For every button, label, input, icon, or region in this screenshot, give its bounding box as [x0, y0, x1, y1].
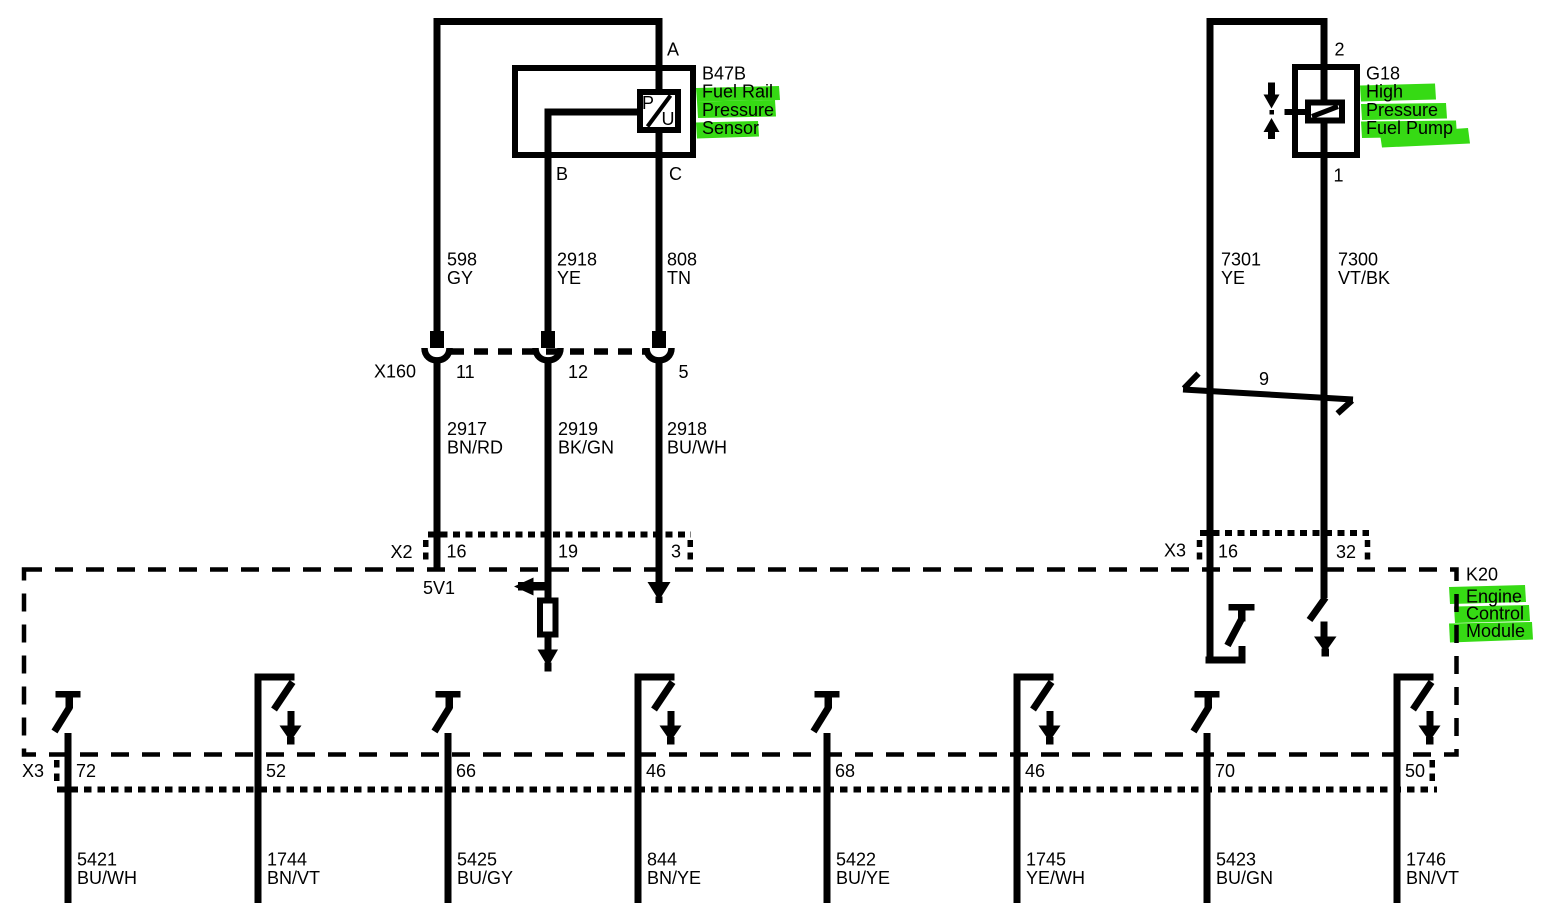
internal switch driver at x=68: [55, 691, 81, 732]
svg-text:TN: TN: [667, 268, 691, 288]
wire label 5421 BU/WH: [77, 850, 137, 889]
internal ground arrow on pin 3 net: [648, 582, 671, 603]
ECM K20 dashed box: [24, 570, 1457, 755]
svg-text:3: 3: [671, 542, 681, 562]
connector X160 female terminal at x=659: [647, 348, 672, 360]
solenoid left stub: [1285, 109, 1306, 115]
svg-text:P: P: [642, 93, 654, 113]
svg-text:X3: X3: [1164, 541, 1186, 561]
component label K20 Engine Control Module: [1449, 565, 1533, 643]
connector X3 right end tick: [1365, 540, 1371, 560]
connector X160 male pin terminal at x=437: [430, 331, 444, 348]
svg-text:B47B: B47B: [702, 64, 746, 84]
internal resistor on pin 19 net: [540, 601, 556, 635]
connector X2 dotted line: [428, 532, 691, 538]
svg-text:16: 16: [447, 542, 467, 562]
internal switch contact T-bar (X3 pin 16 net): [1229, 604, 1255, 622]
internal switch driver at x=1207: [1194, 691, 1220, 732]
twisted pair indicator 9: [1183, 374, 1353, 414]
wire 7301 YE vertical full: [1207, 18, 1214, 663]
output wire circuit 5423: [1204, 733, 1211, 903]
wire label 598 GY: [447, 250, 477, 289]
output wire circuit 844: [635, 674, 642, 903]
internal switch blade (X3 pin 32 net): [1310, 598, 1326, 621]
svg-text:46: 46: [646, 761, 666, 781]
svg-text:2: 2: [1335, 40, 1345, 60]
output wire circuit 5422: [824, 733, 831, 903]
svg-text:YE/WH: YE/WH: [1026, 868, 1085, 888]
svg-text:Pressure: Pressure: [702, 100, 774, 120]
wire label 5422 BU/YE: [836, 850, 890, 889]
connector X2 right end tick: [688, 540, 694, 561]
svg-text:Sensor: Sensor: [702, 118, 759, 138]
svg-text:19: 19: [558, 542, 578, 562]
svg-text:1744: 1744: [267, 850, 307, 870]
svg-text:66: 66: [456, 761, 476, 781]
wire label 1746 BN/VT: [1406, 850, 1459, 889]
svg-text:844: 844: [647, 850, 677, 870]
pressure transducer symbol P/U inside B47B: [640, 92, 678, 130]
pump G18 outer box: [1295, 67, 1357, 155]
connector X3 bottom left end tick: [54, 760, 60, 784]
pump flow arrows: [1264, 83, 1280, 140]
svg-text:2918: 2918: [557, 250, 597, 270]
svg-text:9: 9: [1259, 369, 1269, 389]
svg-text:A: A: [667, 40, 679, 60]
wire 2917 BN/RD vertical: [434, 360, 441, 570]
internal ground arrow below resistor: [538, 650, 559, 672]
wire top horizontal G18 loop: [1207, 18, 1328, 25]
wire left vertical 598 GY: [434, 18, 441, 331]
internal driver with ground arrow at x=1397: [1394, 674, 1441, 745]
internal switch driver at x=827: [814, 691, 840, 732]
svg-text:2917: 2917: [447, 419, 487, 439]
svg-text:5421: 5421: [77, 850, 117, 870]
internal driver with ground arrow at x=1017: [1014, 674, 1061, 745]
svg-text:72: 72: [76, 761, 96, 781]
output wire circuit 1745: [1014, 674, 1021, 903]
svg-text:2918: 2918: [667, 419, 707, 439]
output wire circuit 1744: [255, 674, 262, 903]
wire label 2918 BU/WH: [667, 419, 727, 458]
wire label 7301 YE: [1221, 250, 1261, 289]
wire label 5423 BU/GN: [1216, 850, 1273, 889]
svg-text:2919: 2919: [558, 419, 598, 439]
svg-text:BN/RD: BN/RD: [447, 438, 503, 458]
svg-text:5: 5: [679, 362, 689, 382]
svg-text:BN/YE: BN/YE: [647, 868, 701, 888]
svg-text:GY: GY: [447, 268, 473, 288]
internal ground arrow on pin 32 net: [1314, 622, 1337, 657]
wire label 1745 YE/WH: [1026, 850, 1085, 889]
connector X160 female terminal at x=548: [536, 348, 561, 360]
sensor B47B outer box: [515, 68, 693, 155]
svg-text:BU/GN: BU/GN: [1216, 868, 1273, 888]
connector X160 dashed line: [450, 348, 646, 355]
svg-text:5425: 5425: [457, 850, 497, 870]
svg-text:50: 50: [1405, 761, 1425, 781]
component label G18 High Pressure Fuel Pump: [1360, 64, 1470, 148]
svg-text:32: 32: [1336, 542, 1356, 562]
pump solenoid element: [1308, 103, 1342, 121]
svg-text:52: 52: [266, 761, 286, 781]
svg-text:1745: 1745: [1026, 850, 1066, 870]
component label B47B Fuel Rail Pressure Sensor: [696, 64, 780, 139]
svg-text:808: 808: [667, 250, 697, 270]
svg-text:1: 1: [1334, 166, 1344, 186]
wire pin A vertical: [656, 18, 663, 89]
svg-text:1746: 1746: [1406, 850, 1446, 870]
svg-text:U: U: [662, 109, 675, 129]
svg-text:Module: Module: [1466, 621, 1525, 641]
svg-text:70: 70: [1215, 761, 1235, 781]
internal driver with ground arrow at x=258: [255, 674, 302, 745]
wire label 808 TN: [667, 250, 697, 289]
svg-text:16: 16: [1218, 542, 1238, 562]
connector X3 dotted line (ECM bottom): [57, 787, 1437, 793]
svg-text:K20: K20: [1466, 565, 1498, 585]
svg-text:598: 598: [447, 250, 477, 270]
wire 2918 BU/WH vertical: [656, 360, 663, 582]
svg-text:5V1: 5V1: [423, 578, 455, 598]
internal 5V reference arrow (points left): [514, 578, 552, 596]
svg-text:X160: X160: [374, 362, 416, 382]
svg-text:X3: X3: [22, 761, 44, 781]
internal driver with ground arrow at x=638: [635, 674, 682, 745]
wire pin B horizontal inside box: [545, 109, 641, 116]
svg-text:5423: 5423: [1216, 850, 1256, 870]
wire 2919 BK/GN vertical: [545, 360, 552, 598]
svg-text:BN/VT: BN/VT: [267, 868, 320, 888]
svg-text:5422: 5422: [836, 850, 876, 870]
svg-text:BU/WH: BU/WH: [77, 868, 137, 888]
svg-text:BU/YE: BU/YE: [836, 868, 890, 888]
wire pin B vertical: [545, 109, 552, 332]
svg-text:11: 11: [456, 362, 475, 382]
svg-text:C: C: [669, 164, 682, 184]
svg-text:7300: 7300: [1338, 250, 1378, 270]
wire 7300 VT/BK vertical upper: [1321, 18, 1328, 101]
svg-text:Fuel Pump: Fuel Pump: [1366, 118, 1453, 138]
svg-text:7301: 7301: [1221, 250, 1261, 270]
svg-text:BK/GN: BK/GN: [558, 438, 614, 458]
svg-text:X2: X2: [391, 542, 413, 562]
wire label 7300 VT/BK: [1338, 250, 1390, 289]
svg-text:46: 46: [1025, 761, 1045, 781]
internal switch blade (X3 pin 16 net): [1228, 620, 1242, 646]
svg-text:BU/WH: BU/WH: [667, 438, 727, 458]
output wire circuit 5421: [65, 733, 72, 903]
svg-text:68: 68: [835, 761, 855, 781]
connector X2 left end tick: [423, 540, 429, 561]
svg-text:Fuel Rail: Fuel Rail: [702, 82, 773, 102]
internal switch driver at x=448: [435, 691, 461, 732]
wire label 1744 BN/VT: [267, 850, 320, 889]
wire label 2919 BK/GN: [558, 419, 614, 458]
svg-text:YE: YE: [1221, 268, 1245, 288]
wire label 2917 BN/RD: [447, 419, 503, 458]
wire label 2918 YE: [557, 250, 597, 289]
connector X3 dotted line (ECM top): [1200, 530, 1369, 536]
wire 7300 VT/BK vertical lower: [1321, 122, 1328, 598]
wire label 844 BN/YE: [647, 850, 701, 889]
svg-text:VT/BK: VT/BK: [1338, 268, 1390, 288]
wire below resistor: [545, 636, 552, 651]
svg-text:G18: G18: [1366, 64, 1400, 84]
connector X160 female terminal at x=437: [425, 348, 450, 360]
connector X160 male pin terminal at x=548: [541, 331, 555, 348]
connector X160 male pin terminal at x=659: [652, 331, 666, 348]
internal wire L-bend at pin 16 net: [1206, 646, 1246, 664]
svg-text:BU/GY: BU/GY: [457, 868, 513, 888]
wire label 5425 BU/GY: [457, 850, 513, 889]
svg-text:12: 12: [568, 362, 588, 382]
connector X3 left end tick: [1197, 540, 1203, 560]
svg-text:B: B: [556, 164, 568, 184]
svg-text:Pressure: Pressure: [1366, 100, 1438, 120]
svg-text:BN/VT: BN/VT: [1406, 868, 1459, 888]
output wire circuit 1746: [1394, 674, 1401, 903]
svg-text:YE: YE: [557, 268, 581, 288]
svg-text:High: High: [1366, 82, 1403, 102]
wire top horizontal B47B supply: [434, 18, 663, 25]
wire pin C vertical: [656, 133, 663, 331]
connector X3 bottom right end tick: [1430, 760, 1436, 784]
output wire circuit 5425: [445, 733, 452, 903]
